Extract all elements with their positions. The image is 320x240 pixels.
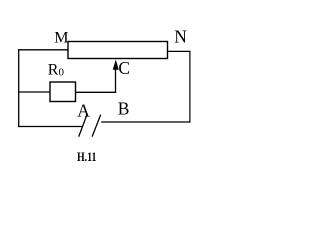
svg-text:N: N: [174, 27, 187, 47]
wire: M terminal to left side: [18, 49, 68, 51]
svg-text:C: C: [118, 58, 130, 78]
wire: bottom left to switch terminal A: [18, 126, 82, 128]
wire: R0 to wiper stem: [76, 91, 117, 93]
svg-text:A: A: [77, 100, 90, 120]
wire: switch terminal B to bottom right: [101, 121, 190, 123]
wire: right side vertical: [189, 51, 191, 122]
switch blade stroke 2 (at B): [92, 115, 101, 137]
wire: left side to R0: [18, 91, 50, 93]
wiper stem wire C: [115, 66, 117, 92]
potentiometer (rheostat) body M-N: [68, 42, 168, 59]
wiper arrowhead: [113, 60, 119, 70]
svg-text:B: B: [118, 98, 130, 118]
switch blade stroke 1 (at A): [79, 114, 88, 137]
svg-text:H.11: H.11: [77, 149, 97, 164]
svg-text:R0: R0: [48, 62, 65, 79]
wire: left side vertical: [18, 49, 20, 127]
resistor R0 body: [50, 82, 76, 102]
wire: N terminal to right side: [168, 50, 191, 52]
svg-text:M: M: [54, 29, 68, 46]
